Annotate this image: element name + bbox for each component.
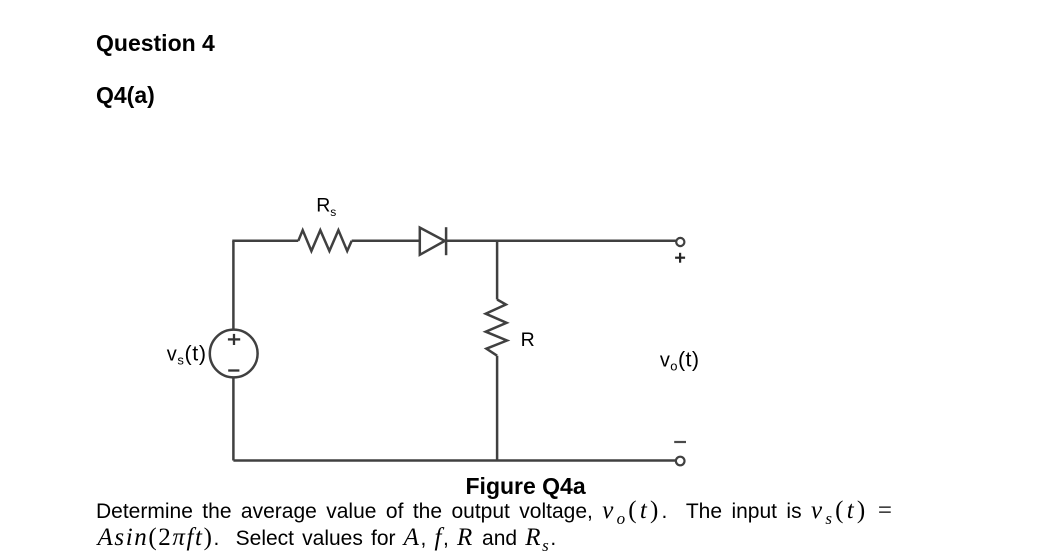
resistor R (vertical zigzag) [486,300,507,356]
wire: top-left horizontal to Rs [232,240,298,243]
voltage source VS minus mark [228,369,239,371]
svg-text:R: R [521,329,535,351]
paragraph line 2 [98,525,557,554]
diode D1 cathode bar [445,227,448,255]
wire: left vertical, source top lead [232,241,235,330]
plus mark at output [675,253,685,263]
caption "Figure Q4a" [466,475,586,498]
wire: left vertical, source bottom lead [232,377,235,460]
heading "Question 4" [96,32,215,55]
wire: R to bottom rail [496,356,499,461]
wire: Rs to diode [352,240,420,243]
terminal: output - (open circle) [676,457,685,466]
wire: bottom rail [233,459,676,462]
diode D1 triangle (anode) [420,228,445,255]
svg-text:vo(t): vo(t) [660,348,700,374]
voltage source VS circle [210,330,258,378]
svg-text:Rs: Rs [316,195,336,219]
svg-text:vs(t): vs(t) [167,342,207,368]
wire: vertical drop to resistor R [496,241,499,300]
heading "Q4(a)" [96,84,155,107]
wire: diode to output terminal (top rail) [446,240,676,243]
paragraph line 1 [96,498,895,527]
terminal: output + (open circle) [676,238,684,246]
voltage source VS plus mark [228,334,240,345]
minus mark at output [674,441,686,443]
resistor Rs (zigzag) [298,230,351,251]
